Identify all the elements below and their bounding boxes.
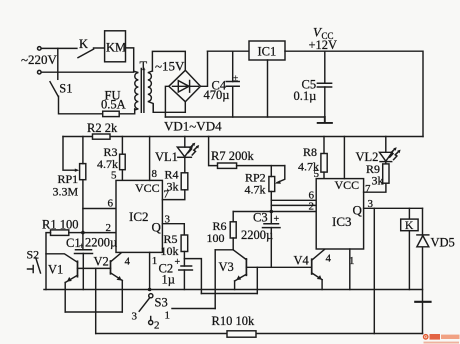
resistor R10 10k (in bottom rail)	[227, 331, 256, 337]
node: RP2/C3 junction	[270, 210, 274, 214]
wire: common line A	[44, 289, 423, 291]
wire: C1 bottom to common line	[82, 254, 84, 290]
svg-text:2200µ: 2200µ	[85, 236, 117, 250]
resistor R6 100	[232, 212, 234, 222]
wire: R1 right to node	[69, 232, 83, 234]
svg-text:0.5A: 0.5A	[101, 98, 126, 112]
transformer T secondary winding	[148, 71, 153, 112]
svg-text:2: 2	[154, 320, 160, 332]
switch S1	[50, 82, 58, 97]
wire: RP2 bottom lead to C3 node	[270, 192, 272, 212]
wire: R8 to IC3 pin 5	[323, 172, 325, 179]
S3 contact 2	[150, 317, 152, 321]
wire: ground bus under bridge	[165, 116, 324, 118]
wire: bridge right vertex up to +12V line	[201, 51, 208, 86]
resistor R2 2k (in rail)	[93, 134, 111, 139]
potentiometer RP2 4.7k wiper	[277, 166, 285, 183]
LED VL2	[385, 137, 387, 153]
svg-text:3: 3	[165, 214, 171, 226]
svg-text:+: +	[79, 241, 84, 251]
relay coil K	[408, 208, 410, 219]
wire: K coil bottom to common line	[408, 231, 410, 290]
wire: tap from R5/C2 junction hop	[184, 259, 201, 294]
wire: S1 down to fuse line	[59, 96, 103, 114]
wire: AC bottom line	[41, 71, 134, 73]
svg-text:V1: V1	[48, 263, 63, 277]
svg-text:V2: V2	[94, 255, 109, 269]
capacitor C3 2200u	[270, 212, 272, 224]
resistor R7 200k	[209, 137, 218, 166]
transformer T primary winding	[134, 71, 139, 110]
wire: C3 bottom to base line	[270, 228, 272, 268]
svg-text:1: 1	[165, 310, 171, 322]
switch S3 pole	[149, 294, 153, 298]
svg-text:R8: R8	[303, 145, 317, 159]
svg-text:7: 7	[164, 189, 170, 201]
wire: secondary bottom to bridge bottom vertex	[153, 105, 185, 113]
wire: RP1 bottom lead to C1 node	[82, 180, 84, 233]
wire: R7 to RP2 wiper line	[237, 165, 285, 167]
svg-text:C3: C3	[253, 211, 268, 225]
LED VL1	[184, 137, 186, 148]
VL2 emission arrows	[390, 149, 399, 160]
wire: V2 emitter down	[121, 281, 123, 313]
resistor R9 3k	[385, 162, 387, 164]
wire: V1 emitter down	[64, 283, 66, 313]
wire: R6 to V3 collector	[232, 238, 234, 250]
node: S3 common junction	[148, 288, 152, 292]
svg-text:470µ: 470µ	[204, 88, 230, 102]
wire: IC3 pin 3 Q output	[364, 207, 423, 209]
wire: IC3 pin 1 down	[349, 249, 351, 290]
svg-text:±: ±	[233, 73, 238, 83]
wire: V3 emitter to common line	[234, 281, 236, 290]
svg-text:R10 10k: R10 10k	[212, 314, 255, 328]
svg-text:6: 6	[108, 198, 114, 210]
capacitor C2 1u	[179, 266, 193, 270]
svg-text:S2: S2	[27, 248, 40, 262]
svg-text:1: 1	[152, 255, 158, 267]
resistor R4 3k	[184, 157, 186, 173]
wire: bottom rail	[96, 333, 423, 335]
transistor V3	[233, 250, 246, 260]
wire: bridge output to IC1	[208, 50, 250, 52]
wire: IC1 output +12V rail top	[285, 51, 423, 136]
wire: AC top line to K contact	[41, 47, 77, 49]
svg-text:S3: S3	[155, 296, 168, 310]
VL1 emission arrows	[188, 144, 197, 155]
svg-text:KM: KM	[106, 41, 126, 55]
svg-text:+: +	[274, 214, 280, 225]
node: AC terminal top	[38, 47, 42, 51]
svg-text:0.1µ: 0.1µ	[294, 89, 317, 103]
svg-text:T: T	[140, 59, 148, 73]
svg-text:VCC: VCC	[335, 178, 360, 192]
wire: rail down to RP1 wiper	[63, 137, 77, 171]
svg-text:3: 3	[368, 198, 374, 210]
wire: +12V mid rail	[63, 136, 423, 138]
svg-text:+: +	[175, 257, 181, 268]
wire: R3 to IC2 pin 5	[121, 170, 123, 181]
wire: contact1 riser link H2	[215, 249, 233, 251]
wire: S1 riser from AC top line	[57, 48, 59, 79]
regulator IC1	[249, 41, 285, 60]
watermark logo	[423, 334, 460, 344]
wire: bridge bottom vertex stub	[184, 102, 186, 113]
svg-text:8: 8	[152, 168, 158, 180]
wire: IC1 ground lead	[267, 60, 269, 117]
wire: bridge left vertex down to ground bus	[165, 86, 168, 117]
bridge rectifier VD1~VD4 diamond	[169, 70, 201, 101]
svg-text:V3: V3	[219, 260, 234, 274]
wire: R5 to C2	[183, 252, 185, 267]
svg-text:~15V: ~15V	[155, 59, 185, 74]
bridge diode symbol inside	[173, 81, 199, 93]
svg-text:Q: Q	[353, 203, 363, 218]
transistor V1 collector from R1 riser	[46, 254, 78, 262]
svg-text:Q: Q	[152, 220, 162, 235]
fuse FU 0.5A	[103, 111, 120, 116]
potentiometer RP1 3.3M	[80, 164, 86, 180]
svg-text:4: 4	[125, 256, 131, 268]
V1 emitter with arrow	[65, 275, 77, 282]
resistor R5 10k	[181, 235, 188, 252]
wire: R9 bottom / IC3 pin 7 link	[364, 183, 386, 192]
wire: R4 to IC2 pin 7	[162, 190, 184, 200]
svg-text:2: 2	[309, 201, 315, 213]
svg-text:3k: 3k	[372, 174, 384, 188]
wire: V2 base drop to bottom rail	[95, 268, 97, 333]
svg-text:VD5: VD5	[431, 236, 455, 250]
svg-text:~220V: ~220V	[21, 52, 58, 67]
wire: IC3 pin 2	[271, 204, 316, 206]
V2 collector to IC2 pin 4	[111, 253, 121, 262]
wire: base line drop to hop line	[256, 267, 258, 293]
wire: hop line	[201, 293, 257, 295]
wire: node line to R6 and IC3	[233, 211, 316, 213]
switch K (relay contact)	[78, 49, 94, 58]
V4 collector to IC3 pin 4	[312, 249, 325, 260]
wire: RP1 top lead to rail	[82, 137, 84, 164]
wire: RP2 top lead	[270, 166, 272, 177]
svg-text:100: 100	[207, 231, 225, 245]
ground symbol	[415, 301, 430, 303]
svg-text:2200µ: 2200µ	[241, 228, 273, 242]
svg-text:3.3M: 3.3M	[53, 185, 79, 199]
svg-text:VCC: VCC	[135, 181, 160, 195]
wire: K to KM coil	[94, 47, 105, 49]
wire: IC2 pin 6	[83, 208, 116, 210]
wire: C2 bottom to common line	[183, 270, 185, 290]
wire: IC2 pin 8 VCC lead	[149, 137, 151, 181]
V2 emitter with arrow	[111, 273, 123, 281]
wire: IC3 VCC lead	[343, 137, 345, 179]
capacitor C5 0.1u	[324, 51, 326, 117]
capacitor C4 470u	[232, 51, 234, 117]
resistor R3 4.7k	[121, 137, 123, 155]
svg-text:IC3: IC3	[332, 214, 352, 229]
wire: S3 contact 1 line	[172, 308, 215, 310]
svg-text:+12V: +12V	[309, 38, 338, 52]
svg-text:3: 3	[132, 311, 138, 323]
svg-text:10k: 10k	[161, 244, 179, 258]
svg-text:4.7k: 4.7k	[245, 183, 266, 197]
wire: IC2 pin 3 Q to R5	[162, 224, 184, 235]
svg-text:IC1: IC1	[258, 45, 277, 59]
wire: V1-V2 base line	[78, 267, 111, 269]
svg-text:R2 2k: R2 2k	[87, 121, 118, 135]
wire: R1 left to V1 collector riser	[46, 233, 51, 290]
wire: IC3 output down to bottom rail	[373, 208, 375, 333]
svg-text:IC2: IC2	[129, 209, 149, 224]
svg-text:R1 100: R1 100	[42, 218, 78, 232]
wire: V3-V4 base line	[246, 266, 311, 268]
svg-text:S1: S1	[59, 82, 72, 96]
transistor V4	[311, 259, 313, 274]
capacitor C1 2200u	[82, 233, 84, 250]
IC3 box	[316, 179, 363, 249]
svg-text:1: 1	[349, 255, 355, 267]
transformer T core	[141, 69, 144, 113]
svg-text:V4: V4	[294, 254, 310, 268]
IC2 box	[116, 180, 162, 252]
transistor V2	[110, 261, 112, 274]
svg-text:2: 2	[106, 222, 112, 234]
resistor R1 100	[51, 230, 69, 236]
diode VD5	[422, 208, 424, 333]
wire: IC3 pin 6	[271, 199, 316, 201]
wire: IC2 pin 1 down	[149, 252, 151, 289]
svg-text:4: 4	[326, 253, 332, 265]
arrowhead into RP1	[75, 169, 80, 172]
svg-text:1µ: 1µ	[162, 273, 175, 287]
wire: emitter link line B	[65, 311, 122, 313]
wire: riser to V3 collector link	[214, 250, 216, 309]
resistor R8 4.7k	[323, 137, 325, 154]
V4 emitter with arrow	[312, 273, 322, 280]
V3 emitter with arrow	[235, 274, 247, 281]
svg-text:VD1~VD4: VD1~VD4	[164, 119, 222, 134]
wire: V4 emitter to common line	[321, 280, 323, 290]
wire: fuse to transformer primary bottom	[119, 109, 135, 114]
svg-text:7: 7	[365, 183, 371, 195]
wire: KM to transformer primary top	[126, 48, 134, 71]
ground: bus termination bar	[318, 117, 332, 123]
svg-text:VL1: VL1	[155, 150, 178, 164]
transistor V1	[77, 261, 79, 276]
node: R1/C1/RP1 junction	[81, 231, 85, 235]
svg-text:R7 200k: R7 200k	[211, 149, 254, 163]
node: AC terminal bottom	[38, 70, 42, 74]
svg-text:K: K	[79, 37, 88, 51]
relay coil KM	[105, 31, 126, 62]
wire: secondary top to bridge top vertex	[152, 51, 185, 71]
wire: IC2 pin 2 from node	[83, 232, 116, 234]
